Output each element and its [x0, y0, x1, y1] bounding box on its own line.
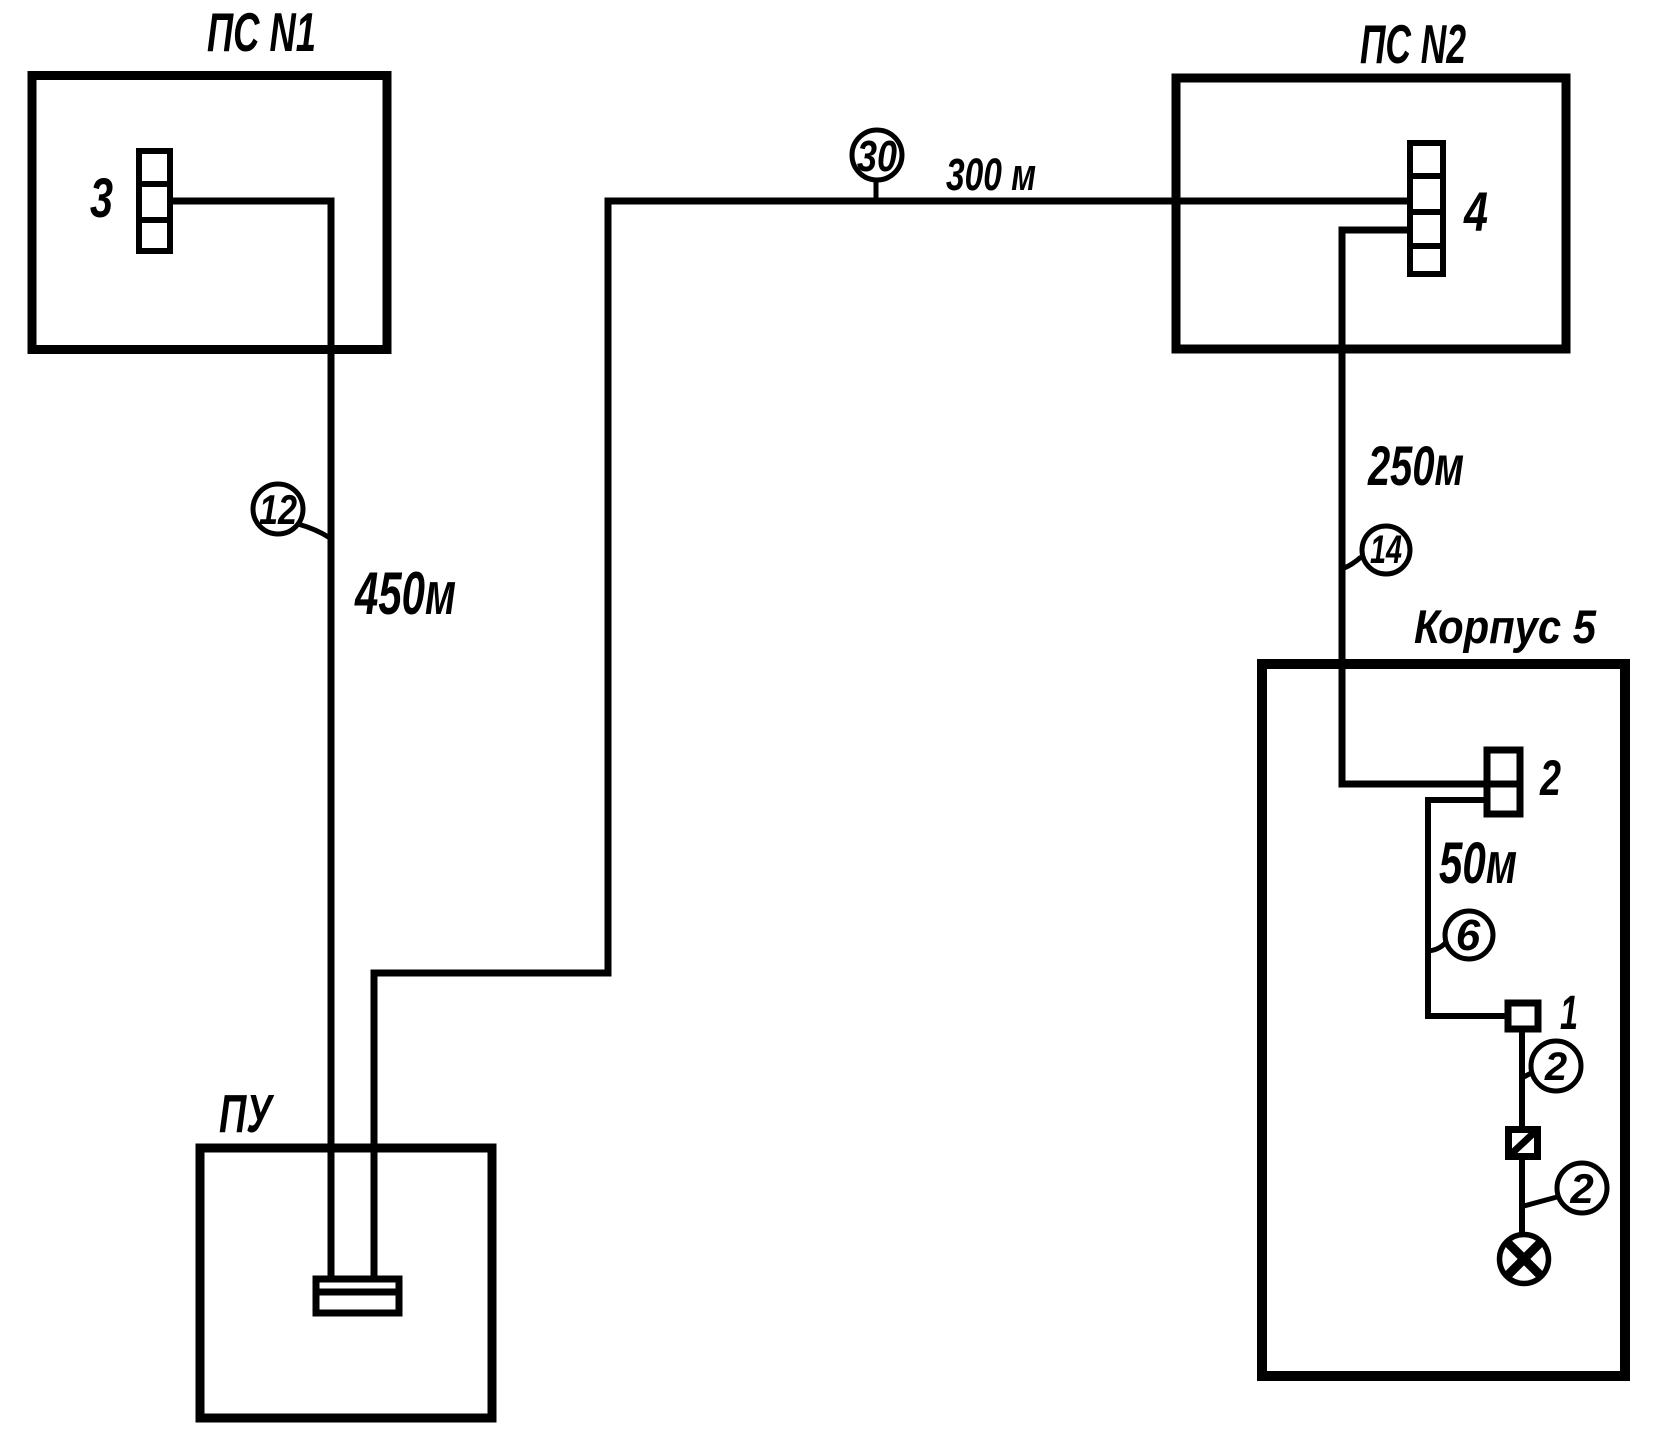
wire call point to lamp: [1519, 1160, 1525, 1234]
building box Корпус 5: [1262, 664, 1625, 1376]
svg-text:30: 30: [857, 132, 897, 181]
junction box 1: [1508, 1003, 1538, 1029]
svg-text:2: 2: [1569, 1165, 1593, 1212]
lamp: [1500, 1235, 1549, 1284]
svg-text:50м: 50м: [1439, 831, 1517, 896]
svg-text:ПУ: ПУ: [219, 1084, 274, 1144]
circle marker 6: [1445, 911, 1493, 959]
circle marker 14: [1362, 526, 1410, 574]
wire ПУ panel to block 4: [374, 201, 1407, 1276]
svg-text:300 м: 300 м: [946, 149, 1036, 200]
wire block3 to ПУ panel: [173, 201, 331, 1276]
wire box1 to call point: [1519, 1029, 1525, 1126]
svg-text:1: 1: [1560, 987, 1578, 1040]
svg-text:6: 6: [1456, 911, 1481, 960]
leader 12: [298, 524, 330, 538]
building box ПУ: [200, 1148, 492, 1418]
junction box 2: [1487, 750, 1520, 814]
leader 2a: [1522, 1072, 1533, 1078]
svg-text:2: 2: [1544, 1045, 1567, 1089]
fire panel block 3: [139, 151, 170, 251]
wire box2 to box1: [1428, 800, 1505, 1016]
circle marker 30: [852, 130, 902, 180]
leader 14: [1344, 557, 1361, 568]
svg-text:12: 12: [259, 486, 297, 533]
svg-text:ПС N1: ПС N1: [207, 1, 316, 63]
svg-text:ПС N2: ПС N2: [1360, 13, 1466, 75]
circle marker 2a: [1531, 1041, 1581, 1091]
circle marker 12: [253, 484, 303, 534]
svg-text:14: 14: [1370, 528, 1402, 572]
svg-text:2: 2: [1539, 750, 1561, 806]
wire block4 to junction box 2: [1342, 230, 1486, 784]
svg-text:450м: 450м: [354, 560, 456, 627]
building box ПС N1: [32, 76, 387, 350]
leader 2b: [1524, 1197, 1557, 1206]
svg-text:Корпус 5: Корпус 5: [1414, 600, 1597, 653]
manual call point square: [1508, 1129, 1538, 1157]
svg-text:250м: 250м: [1367, 434, 1464, 497]
control unit in ПУ: [313, 1279, 402, 1313]
building box ПС N2: [1176, 78, 1566, 349]
circle marker 2b: [1557, 1163, 1607, 1213]
tick 30: [874, 182, 879, 200]
fire panel block 4: [1410, 143, 1443, 274]
svg-text:4: 4: [1463, 180, 1488, 243]
svg-text:3: 3: [90, 166, 113, 229]
leader 6: [1428, 941, 1447, 951]
